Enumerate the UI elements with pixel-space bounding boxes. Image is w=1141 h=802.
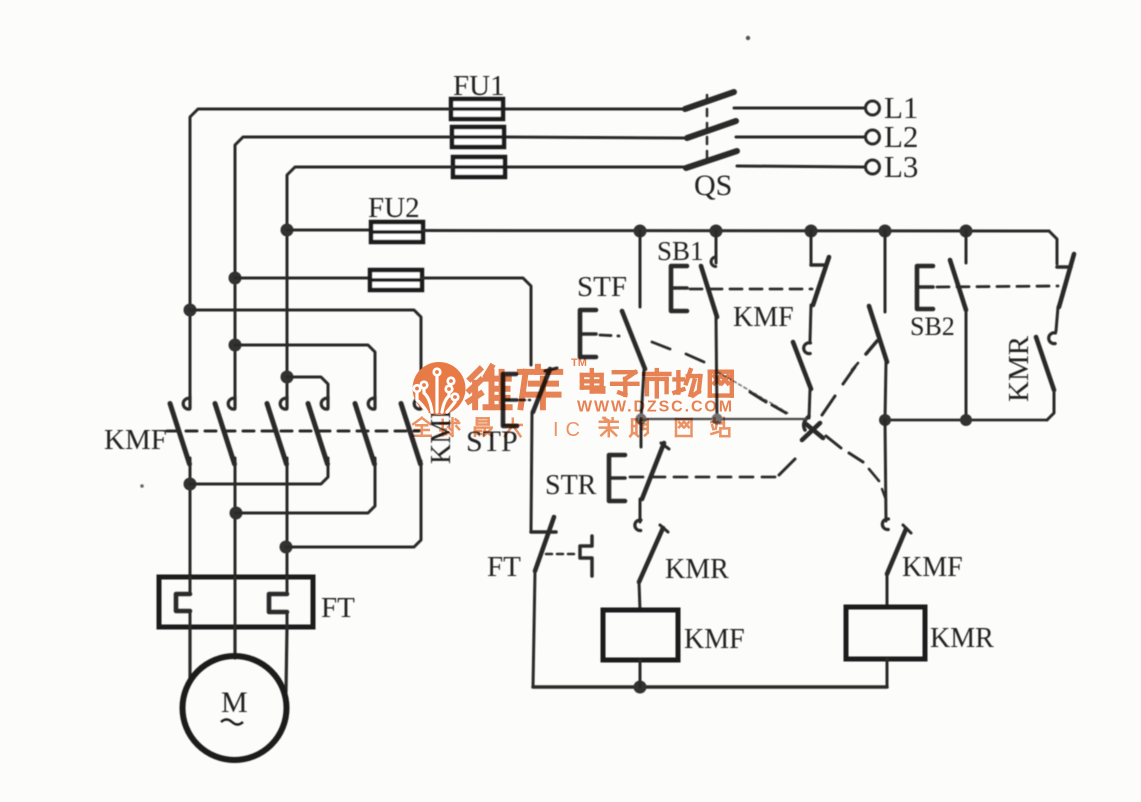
- node L1 terminal: [866, 90, 919, 125]
- wire right node row: [885, 419, 1047, 422]
- switch QS pole 1 blade: [685, 92, 734, 109]
- svg-text:KMF: KMF: [104, 424, 167, 456]
- contact SB2-linked NC bar: [1057, 265, 1071, 269]
- wire contact5 bottom to phase2 node: [236, 458, 375, 513]
- node top bus junction x716: [710, 225, 723, 238]
- wire STR to KMR aux: [639, 499, 642, 522]
- svg-text:QS: QS: [694, 169, 732, 202]
- svg-text:FU1: FU1: [453, 70, 505, 102]
- fuse FU1a: [449, 99, 505, 119]
- svg-text:WWW.DZSC.COM: WWW.DZSC.COM: [577, 399, 734, 416]
- label KMR coil: [930, 623, 994, 654]
- label SB1: [657, 236, 704, 266]
- contactor KMR main contact 6: [401, 396, 421, 464]
- wire phase2 to KMR contact5 top: [235, 345, 375, 398]
- wire FU1c to corner and down (phase3 drop): [287, 167, 453, 397]
- label KMR main rotated: [426, 400, 457, 464]
- svg-text:SB2: SB2: [910, 312, 955, 341]
- wire phase1 to KMR contact6 top: [190, 310, 421, 400]
- fuse FU1c: [451, 157, 507, 177]
- pushbutton SB1 bracket: [671, 266, 687, 311]
- label QS: [694, 169, 732, 202]
- switch QS pole 3 blade: [686, 151, 737, 168]
- node top bus junction x811: [805, 225, 818, 238]
- node top bus junction x885: [879, 225, 892, 238]
- node junction phase3-FU2a: [281, 224, 294, 237]
- pushbutton SB1 hook: [711, 257, 716, 267]
- label FT box: [321, 592, 355, 624]
- wire bus to KMF aux NC: [810, 231, 813, 264]
- contact STR-linked spur: [866, 341, 877, 354]
- node junction phase2-FU2b: [229, 272, 242, 285]
- label STF: [577, 271, 627, 303]
- wire curl at node: [804, 416, 809, 430]
- node right row junction A: [879, 414, 891, 426]
- FT heater element phase3: [269, 577, 287, 627]
- pushbutton SB2 blade: [950, 260, 966, 310]
- svg-text:KMR: KMR: [930, 623, 994, 654]
- svg-text:FT: FT: [487, 551, 521, 583]
- contact KMF aux NC bar: [811, 263, 826, 267]
- pushbutton STP blade: [533, 368, 557, 412]
- svg-text:FU2: FU2: [368, 192, 420, 224]
- svg-text:TM: TM: [571, 357, 587, 369]
- wire bus to STF: [639, 231, 642, 307]
- node bottom bus junction: [634, 681, 647, 694]
- mechanical link STR dashed: [630, 459, 795, 477]
- wire KMF coil to bus: [639, 660, 642, 687]
- label FU1: [453, 70, 505, 102]
- pushbutton SB1 blade: [701, 266, 717, 317]
- switch QS pole 2 blade: [687, 121, 736, 138]
- label KMR seal rotated: [1003, 335, 1035, 402]
- label STR: [545, 470, 597, 501]
- node L2 terminal: [866, 119, 919, 154]
- wire KMF NO to node: [809, 390, 810, 418]
- node junction phase3 upper: [281, 371, 294, 384]
- pushbutton STR blade: [642, 443, 669, 499]
- wire KMR aux to coil: [639, 582, 640, 610]
- pushbutton STP bracket: [503, 374, 530, 426]
- node junction below contact3: [280, 541, 293, 554]
- wire L3 to QS: [737, 166, 864, 167]
- wire node to KMF aux: [885, 420, 886, 521]
- wire FT to motor 1: [188, 627, 191, 681]
- node junction phase1 upper: [184, 304, 197, 317]
- mechanical link SB2 dashed: [937, 286, 1058, 287]
- svg-text:IC: IC: [553, 419, 587, 441]
- wire top control bus right corner: [1049, 231, 1057, 264]
- label motor M: [221, 686, 248, 725]
- wire FU1a to corner and down (phase1 drop): [190, 109, 451, 397]
- label SB2: [910, 312, 955, 341]
- wire STF to left node: [641, 370, 644, 419]
- node top bus junction x966: [960, 225, 973, 238]
- wire node to STR: [640, 419, 643, 447]
- contact KMF aux NC blade: [813, 257, 829, 305]
- label KMF coil: [684, 624, 745, 655]
- contactor KMR main contact 5: [355, 396, 375, 464]
- wire left node row: [641, 418, 806, 420]
- node right row junction B: [960, 414, 972, 426]
- watermark dzsc.com logo: [412, 362, 465, 415]
- label FT aux: [487, 551, 521, 583]
- coil KMR: [846, 607, 925, 659]
- label KMF interlock: [902, 552, 963, 583]
- svg-text:KMF: KMF: [902, 552, 963, 583]
- mechanical link SB1 dashed: [690, 288, 812, 291]
- thermal contact FT blade: [531, 517, 556, 571]
- wire NC to KMR seal: [1056, 307, 1058, 331]
- svg-text:KMF: KMF: [684, 624, 745, 655]
- svg-text:KMR: KMR: [1003, 335, 1035, 402]
- fuse FU1b: [450, 127, 506, 147]
- wire L1 to QS: [734, 107, 864, 110]
- wire phase3 to KMR contact4 top: [287, 377, 328, 398]
- contact STR-linked blade: [869, 306, 887, 362]
- wire contact1 down to FT: [189, 458, 192, 576]
- contact KMR aux hook: [635, 520, 641, 531]
- motor M circle: [183, 656, 287, 760]
- svg-text:KMR: KMR: [665, 554, 729, 585]
- svg-text:M: M: [221, 686, 248, 719]
- pushbutton STF blade: [622, 311, 645, 369]
- wire contact3 down to FT: [286, 458, 289, 576]
- node top bus junction x640: [634, 225, 647, 238]
- wire bus to SB1: [715, 231, 718, 263]
- wire L2 to QS: [736, 136, 864, 139]
- svg-text:STR: STR: [545, 470, 597, 501]
- node junction below contact2: [230, 507, 243, 520]
- svg-text:STF: STF: [577, 271, 627, 303]
- label KMF main: [104, 424, 167, 456]
- contact KMR seal blade: [1036, 337, 1054, 390]
- node left row junction A: [636, 414, 647, 425]
- switch QS linkage dashed: [706, 95, 709, 165]
- wire bus to SB2: [965, 231, 968, 263]
- wire contact6 bottom to phase3 node: [286, 461, 421, 547]
- contact KMF interlock blade: [887, 525, 911, 574]
- mechanical link dashed KMF row: [167, 430, 419, 433]
- wire KMR seal to right node: [1047, 390, 1054, 420]
- contactor KMF main contact 2: [215, 396, 235, 464]
- node L3 terminal: [866, 149, 919, 184]
- contact SB2-linked NC blade: [1059, 254, 1074, 307]
- mechanical cross X: [802, 423, 823, 440]
- contactor KMR main contact 4: [308, 396, 328, 464]
- label KMR aux: [665, 554, 729, 585]
- fuse FU2a with wire to control bus: [287, 222, 1049, 242]
- wire KMF interlock to coil: [886, 574, 889, 607]
- mechanical link STF diagonal dashed: [600, 335, 788, 413]
- contactor KMF main contact 1: [170, 396, 190, 464]
- thermal contact FT release symbol: [546, 536, 592, 576]
- contact KMR aux blade: [639, 525, 668, 582]
- wire SB1 to left node: [716, 317, 717, 419]
- FT heater element phase1: [176, 577, 190, 627]
- pushbutton SB2 bracket: [917, 266, 933, 309]
- wire QS1 to FU1a: [504, 108, 684, 111]
- node left row junction B: [712, 414, 723, 425]
- wire SB2 to right node: [965, 310, 968, 420]
- mechanical link X to contact-D dashed: [822, 363, 858, 415]
- fuse FU2b with wire to left control rail: [235, 270, 531, 365]
- wire contact4 bottom to phase1 node: [190, 458, 328, 484]
- label KMF aux top: [733, 302, 794, 333]
- svg-text:SB1: SB1: [657, 236, 704, 266]
- wire QS2 to FU1b: [505, 137, 686, 138]
- coil KMF: [603, 610, 678, 660]
- contact KMF aux NO hook: [804, 343, 811, 354]
- label STP: [466, 425, 518, 458]
- label FU2: [368, 192, 420, 224]
- pushbutton STF bracket: [580, 310, 596, 357]
- wire QS3 to FU1c: [506, 166, 685, 169]
- wire FU1b to corner and down (phase2 drop): [235, 137, 452, 397]
- svg-text:KMF: KMF: [733, 302, 794, 333]
- FT heater wire phase2: [234, 577, 237, 627]
- node junction below contact1: [184, 478, 197, 491]
- node junction phase2 upper: [229, 339, 242, 352]
- svg-text:L3: L3: [884, 149, 918, 184]
- pushbutton STR bracket: [609, 455, 625, 501]
- svg-text:FT: FT: [321, 592, 355, 624]
- wire STP to FT aux: [531, 412, 532, 531]
- contactor KMF main contact 3: [267, 396, 287, 464]
- contact KMF interlock hook: [882, 519, 888, 530]
- mechanical link X to KMF-interlock dashed: [826, 436, 886, 500]
- contact KMR seal hook: [1049, 333, 1056, 344]
- wire KMR coil to bus: [886, 659, 889, 687]
- thermal relay FT heater box: [159, 577, 313, 627]
- wire contact D to right node: [885, 362, 886, 420]
- speck: [140, 36, 750, 488]
- wire FT aux to bottom bus: [533, 571, 535, 687]
- wire contact2 down to FT: [234, 458, 237, 576]
- wire FT to motor 3: [286, 627, 287, 692]
- contact KMF aux NO blade: [793, 342, 811, 389]
- wire bottom control bus: [533, 685, 887, 689]
- wire bus to contact D: [884, 231, 887, 312]
- wire FT to motor 2: [233, 627, 236, 658]
- wire KMF NC to NO: [810, 305, 811, 341]
